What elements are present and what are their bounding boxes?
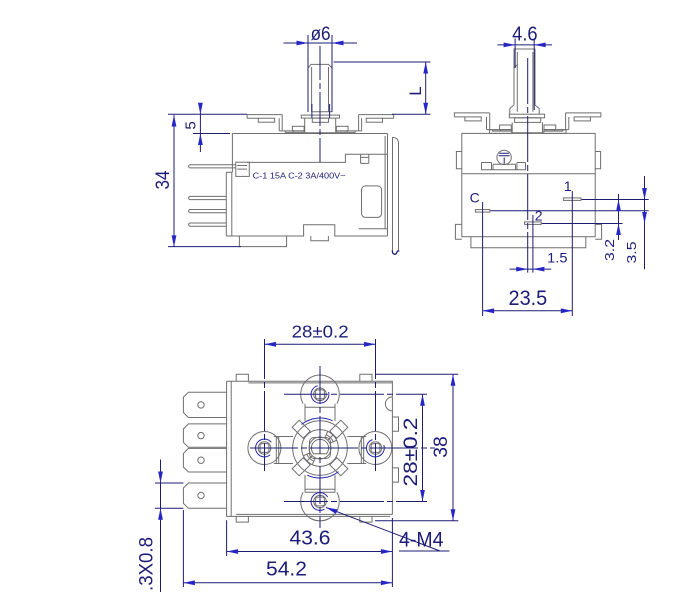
terminal 3 hole	[198, 457, 204, 463]
dim 43.6 line	[227, 551, 393, 553]
svg-text:28±0.2: 28±0.2	[292, 321, 349, 341]
inspection window	[362, 186, 382, 218]
pin clip	[236, 162, 250, 176]
svg-text:L: L	[406, 86, 425, 95]
side hook bottom-right	[595, 224, 601, 239]
leader 4-M4	[326, 508, 449, 552]
ear N centerline horiz	[284, 393, 427, 395]
mounting ear left (front)	[247, 115, 282, 119]
dim 38 ext lines	[375, 374, 458, 521]
ear N neck	[305, 404, 335, 421]
flange hook	[392, 250, 398, 254]
terminal blade 4	[183, 483, 226, 508]
svg-text:38: 38	[431, 436, 452, 458]
shaft front view	[308, 64, 332, 112]
svg-text:4.6: 4.6	[512, 24, 538, 46]
mounting ear left (side)	[454, 113, 489, 117]
dim 3.2 line	[618, 194, 620, 240]
svg-text:3.2: 3.2	[602, 239, 617, 261]
ear N thread arc	[311, 386, 329, 403]
terminal 1 ref line	[582, 199, 649, 201]
ear S hole	[314, 495, 327, 508]
svg-text:2: 2	[535, 207, 543, 223]
arrows side view	[504, 43, 516, 48]
main horizontal centerline	[250, 447, 435, 449]
dim 34 line	[168, 115, 241, 247]
dim 4.6 extension lines	[515, 39, 534, 111]
svg-text:34: 34	[153, 170, 174, 189]
side hook bottom-left	[455, 224, 461, 239]
body bottom view	[227, 381, 393, 516]
pin 2	[189, 196, 227, 199]
step tab	[361, 154, 369, 163]
ear S thread arc	[311, 493, 328, 511]
terminal 1 hole	[198, 402, 204, 408]
dim 5 / 34 top extension	[168, 113, 247, 115]
side centerline	[527, 58, 529, 273]
terminal 1 centerline	[571, 191, 573, 316]
svg-text:23.5: 23.5	[509, 287, 548, 310]
dim 5 line	[193, 105, 230, 153]
ear N	[301, 375, 340, 404]
ear W hole	[258, 442, 271, 455]
body side view	[462, 133, 595, 236]
ear E neck	[347, 437, 366, 464]
arrows bottom view	[265, 342, 277, 347]
top small plates	[490, 130, 512, 134]
boss thread arc top	[302, 418, 333, 424]
terminal 2 centerline	[532, 215, 534, 273]
ear E	[359, 432, 392, 465]
side hook top-left	[456, 152, 461, 169]
bottom-left foot tab	[239, 236, 286, 247]
central boss circles	[293, 421, 348, 476]
ear S	[301, 492, 340, 521]
terminal blade 2	[183, 424, 226, 447]
internal step line	[247, 154, 388, 162]
hub rounded square	[310, 438, 331, 459]
D-shaft	[311, 439, 328, 453]
ear E hole	[369, 442, 382, 455]
right edge tab lower	[392, 468, 398, 482]
corner tab top-right	[360, 374, 372, 381]
svg-text:1.5: 1.5	[547, 249, 568, 265]
parting line	[462, 173, 595, 175]
svg-text:C-1 15A C-2 3A/400V~: C-1 15A C-2 3A/400V~	[253, 171, 346, 181]
dim ø6 line	[284, 42, 358, 44]
terminal slot 1	[564, 198, 582, 201]
corner tab bottom-right	[360, 516, 372, 522]
svg-text:1: 1	[564, 178, 572, 194]
pin 3	[189, 210, 227, 213]
mounting ear right (front)	[359, 115, 394, 119]
ear E thread arc	[366, 440, 384, 457]
corner wing SW	[292, 458, 310, 476]
dim 54.2 ext lines	[183, 510, 392, 587]
right edge tab upper	[392, 417, 398, 431]
ear W centerline vert	[264, 339, 266, 471]
dim 28 right line	[422, 394, 424, 501]
screw head	[497, 150, 511, 164]
ear W thread arc	[256, 439, 272, 457]
terminal C centerline	[482, 202, 484, 316]
svg-text:4-M4: 4-M4	[399, 529, 444, 552]
body front view outline	[226, 134, 387, 237]
left edge double lines	[230, 381, 232, 516]
arrows front view	[297, 41, 309, 46]
boss thread arc bottom	[307, 472, 338, 478]
dim 3.5 line	[644, 176, 646, 269]
svg-text:C: C	[470, 189, 480, 205]
ear W neck	[274, 437, 293, 464]
pin 4	[189, 223, 227, 226]
corner tab top-left	[236, 374, 248, 381]
ear S centerline horiz	[284, 501, 427, 503]
pin 1	[189, 165, 236, 168]
svg-text:ø6: ø6	[311, 24, 331, 45]
bottom edge with notched tab	[226, 225, 387, 241]
main vertical centerline	[319, 366, 321, 528]
svg-text:5: 5	[183, 121, 200, 129]
corner wing NE	[330, 420, 348, 438]
terminal 2 hole	[198, 432, 204, 438]
terminal C ref line	[490, 210, 648, 212]
terminal 2 ref line	[542, 223, 623, 225]
ear N hole	[314, 388, 327, 401]
dim L line	[425, 62, 427, 114]
dim 43.6 ext lines	[227, 518, 393, 556]
svg-text:3.5: 3.5	[624, 242, 639, 264]
svg-text:.3X0.8: .3X0.8	[137, 537, 158, 591]
boss side view	[509, 114, 544, 118]
ear E centerline vert	[375, 339, 377, 471]
terminal slot C	[475, 210, 490, 213]
shaft side view	[514, 49, 535, 105]
screw channel bracket	[482, 163, 526, 170]
dim 1.5 line	[510, 268, 552, 270]
svg-text:54.2: 54.2	[266, 559, 307, 581]
terminal 4 hole	[198, 492, 204, 498]
shaft centerline front	[319, 46, 321, 162]
right edge	[387, 134, 389, 237]
terminal blade 1	[183, 392, 226, 417]
svg-text:43.6: 43.6	[290, 528, 331, 550]
dim 38 line	[452, 374, 454, 521]
dim L extension lines	[334, 62, 431, 114]
side hook top-right	[595, 152, 600, 169]
svg-text:28±0.2: 28±0.2	[401, 418, 422, 487]
right edge semicircle key	[385, 397, 392, 411]
terminal slot 2	[525, 222, 542, 225]
mounting ear right (side)	[566, 113, 601, 117]
side flange (right of front body)	[393, 137, 399, 250]
dim 54.2 line	[183, 582, 392, 584]
dim 23.5 line	[483, 310, 573, 312]
corner tab bottom-left	[236, 516, 248, 522]
terminal blade 3	[183, 448, 226, 472]
dim ø6 extension lines	[308, 35, 332, 118]
right inner wall	[359, 136, 388, 229]
dim 6.3x0.8 line	[160, 460, 162, 593]
spline wedges NE	[325, 431, 337, 443]
shaft feet	[510, 105, 539, 114]
dim 4.6 line	[498, 44, 553, 46]
dim 28 top line	[265, 343, 376, 345]
boss front view	[301, 115, 339, 118]
narrow bottom section	[471, 237, 586, 248]
ear W	[248, 432, 281, 465]
ear S neck	[305, 475, 335, 492]
corner wing NW	[292, 420, 310, 438]
spline wedges SW	[303, 453, 315, 465]
corner wing SE	[330, 458, 348, 476]
dim 6.3x0.8 ext lines	[155, 483, 183, 508]
